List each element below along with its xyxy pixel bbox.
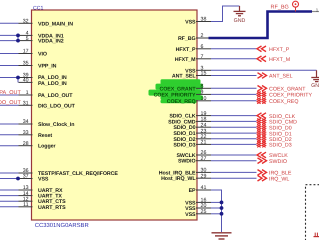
svg-text:33: 33: [23, 130, 29, 136]
net label RF_BG: [271, 4, 289, 10]
svg-text:40: 40: [23, 78, 29, 84]
wire RF_BG thick: [209, 12, 313, 39]
svg-text:Reset: Reset: [38, 133, 52, 139]
pin 1 PA_LDO_OUT: [0, 90, 73, 99]
port HFXT_P: [211, 46, 290, 53]
svg-text:VDD_MAIN_IN: VDD_MAIN_IN: [38, 21, 73, 27]
svg-text:COEX_GRANT: COEX_GRANT: [160, 86, 197, 92]
pin 35 VPP_IN: [0, 61, 57, 70]
svg-text:41: 41: [201, 185, 207, 191]
net label PA_OUT: [0, 90, 21, 96]
port HFXT_M: [211, 56, 290, 63]
svg-text:1: 1: [26, 90, 29, 96]
svg-text:VSS: VSS: [38, 177, 49, 183]
port IRQ_WL: [211, 175, 289, 182]
port SWDIO: [211, 158, 287, 165]
pin 14 UART_TX: [0, 191, 62, 200]
svg-text:COEX_REQ: COEX_REQ: [167, 99, 196, 105]
svg-text:PA_LDO_IN: PA_LDO_IN: [38, 81, 67, 87]
pin 33 Reset: [0, 130, 52, 139]
svg-text:Host_IRQ_WL: Host_IRQ_WL: [161, 176, 196, 182]
svg-text:2: 2: [201, 33, 204, 39]
pin 8 COEX_GRANT: [160, 84, 212, 93]
pin 23 SDIO_D1: [173, 128, 211, 137]
svg-text:8: 8: [201, 84, 204, 90]
port SDIO_D1: [211, 130, 292, 137]
svg-text:RF_BG: RF_BG: [178, 36, 196, 42]
svg-text:Logger: Logger: [38, 144, 55, 150]
svg-text:VIO: VIO: [38, 52, 47, 58]
pin 34 Slow_Clock_In: [0, 119, 74, 128]
ground GND top: [234, 6, 246, 24]
svg-text:ANT_SEL: ANT_SEL: [172, 74, 196, 80]
pin 5 VDDA_IN2: [0, 36, 64, 45]
svg-text:VDDA_IN2: VDDA_IN2: [38, 39, 64, 45]
pin 3 VSS: [185, 66, 211, 75]
ground GND bottom: [212, 233, 232, 239]
pin 32 VDD_MAIN_IN: [0, 19, 73, 28]
pin 29 Host_IRQ_WL: [161, 173, 211, 182]
pin 13 UART_RX: [0, 185, 63, 194]
svg-text:29: 29: [201, 173, 207, 179]
svg-text:35: 35: [23, 61, 29, 67]
no-ERC marker on RF_BG: [293, 1, 299, 11]
node VDDA_IN1 junction: [16, 34, 20, 38]
svg-text:38: 38: [201, 17, 207, 23]
pin 20 VSS: [185, 203, 211, 212]
pin 7 HFXT_M: [175, 54, 211, 63]
pin 19 SDIO_CLK: [169, 111, 211, 120]
wire VDDA tie: [17, 35, 19, 40]
power symbol in dashed box: [314, 233, 320, 237]
port COEX_GRANT: [211, 86, 306, 93]
pin 27 SWDIO: [178, 156, 211, 165]
value label CC3301NG0ARSBR: [35, 222, 89, 229]
pin 10 COEX_REQ: [167, 96, 211, 105]
svg-text:VPP_IN: VPP_IN: [38, 64, 57, 70]
wire PA_LDO tie: [17, 78, 19, 83]
svg-text:HFXT_P: HFXT_P: [176, 47, 196, 53]
pin 25 VSS: [185, 209, 211, 218]
port SDIO_CLK: [211, 113, 296, 120]
port SDIO_D0: [211, 124, 292, 131]
svg-text:10: 10: [201, 96, 207, 102]
svg-text:7: 7: [201, 54, 204, 60]
IC CC1 CC3301NG0ARSBR symbol body: [32, 10, 198, 220]
node VSS37 junction: [16, 177, 20, 181]
svg-text:IRQ_WL: IRQ_WL: [269, 176, 289, 182]
svg-text:VSS: VSS: [185, 212, 196, 218]
wire RF_BG offsheet gray: [312, 11, 319, 13]
port SDIO_D2: [211, 136, 292, 143]
port SDIO_D3: [211, 142, 292, 149]
svg-text:9: 9: [201, 90, 204, 96]
svg-text:34: 34: [23, 119, 29, 125]
pin 37 VSS: [0, 174, 49, 183]
svg-text:5: 5: [26, 36, 29, 42]
wire VSS38 to GND: [211, 6, 240, 22]
svg-text:DIG_LDO_OUT: DIG_LDO_OUT: [38, 103, 76, 109]
sheet boundary dashed box: [306, 185, 320, 240]
pin 41 EP: [189, 185, 211, 194]
pin 15 ANT_SEL: [172, 71, 211, 80]
node PA_LDO_IN junction: [16, 76, 20, 80]
svg-text:COEX_PRIORITY: COEX_PRIORITY: [154, 92, 196, 98]
svg-text:ANT_SEL: ANT_SEL: [269, 74, 293, 80]
svg-text:SWDIO: SWDIO: [269, 159, 287, 165]
svg-text:COEX_GRANT: COEX_GRANT: [269, 87, 306, 93]
port ANT_SEL: [211, 73, 293, 80]
pin 1 offsheet: [316, 7, 319, 12]
svg-text:CC1: CC1: [33, 5, 43, 11]
port IRQ_BLE: [211, 170, 292, 177]
svg-text:EP: EP: [189, 188, 196, 194]
pin 2 RF_BG: [178, 33, 211, 42]
svg-text:TESTP/FAST_CLK_REQ/IFORCE: TESTP/FAST_CLK_REQ/IFORCE: [38, 171, 118, 177]
svg-text:VSS: VSS: [185, 20, 196, 26]
pin 16 VSS: [185, 198, 211, 207]
pin 39 PA_LDO_IN: [0, 73, 67, 81]
node VSS20 junction: [220, 206, 224, 210]
ground GND right: [311, 70, 320, 89]
svg-text:HFXT_P: HFXT_P: [269, 47, 290, 53]
pin 18 SDIO_CMD: [168, 117, 211, 126]
net label DO_OUT: [0, 100, 21, 106]
pin 9 COEX_PRIORITY: [154, 90, 211, 99]
svg-text:37: 37: [23, 174, 29, 180]
svg-text:28: 28: [23, 141, 29, 147]
svg-text:GND: GND: [311, 83, 319, 89]
pin 38 VSS: [185, 17, 211, 26]
svg-text:PA_OUT: PA_OUT: [0, 90, 21, 96]
svg-text:HFXT_M: HFXT_M: [175, 57, 196, 63]
node VSS16 junction: [220, 201, 224, 205]
pin 6 HFXT_P: [176, 44, 211, 53]
pin 40 PA_LDO_IN: [19, 78, 67, 87]
node COEX highlight: [149, 79, 204, 103]
svg-text:6: 6: [201, 44, 204, 50]
port SWCLK: [211, 152, 288, 159]
pin 11 UART_RTS: [0, 202, 66, 211]
pin 21 SDIO_D3: [173, 140, 211, 149]
pin 31 DIG_LDO_OUT: [0, 101, 76, 110]
pin 22 SDIO_D2: [173, 134, 211, 143]
svg-text:GND: GND: [234, 18, 246, 24]
svg-text:17: 17: [23, 49, 29, 55]
pin 26 SWCLK: [176, 150, 211, 159]
svg-text:27: 27: [201, 156, 207, 162]
node VDDA_IN2 junction: [16, 39, 20, 43]
svg-text:11: 11: [23, 202, 29, 208]
svg-text:32: 32: [23, 19, 29, 25]
svg-text:15: 15: [201, 71, 207, 77]
pin 28 Logger: [0, 141, 55, 150]
port COEX_REQ: [211, 98, 298, 105]
svg-text:SWDIO: SWDIO: [178, 159, 196, 165]
svg-text:HFXT_M: HFXT_M: [269, 57, 290, 63]
pin 36 TESTP/FAST_CLK_REQ/IFORCE: [0, 168, 118, 177]
svg-text:SDIO_D3: SDIO_D3: [173, 142, 195, 148]
pin 24 SDIO_D0: [173, 122, 211, 131]
designator CC1: [33, 5, 43, 11]
node VSS25 junction: [220, 212, 224, 216]
svg-text:DO_OUT: DO_OUT: [0, 100, 21, 106]
pin 30 Host_IRQ_BLE: [159, 168, 211, 177]
svg-text:UART_RTS: UART_RTS: [38, 205, 66, 211]
svg-text:RF_BG: RF_BG: [271, 4, 289, 10]
svg-text:PA_LDO_OUT: PA_LDO_OUT: [38, 93, 73, 99]
svg-text:SDIO_D3: SDIO_D3: [269, 143, 292, 149]
wire VSS25: [211, 213, 222, 215]
wire EP down: [211, 190, 222, 232]
pin 12 UART_CTS: [0, 196, 66, 205]
svg-text:31: 31: [23, 101, 29, 107]
svg-text:CC3301NG0ARSBR: CC3301NG0ARSBR: [35, 222, 89, 229]
svg-text:21: 21: [201, 140, 207, 146]
svg-text:COEX_REQ: COEX_REQ: [269, 99, 298, 105]
svg-text:Slow_Clock_In: Slow_Clock_In: [38, 122, 74, 128]
port COEX_PRIORITY: [211, 92, 312, 99]
wire VSS3 to GND: [211, 69, 317, 71]
pin 4 VDDA_IN1: [0, 31, 64, 40]
wire VSS16: [211, 201, 222, 203]
wire VSS20: [211, 207, 222, 209]
pin 17 VIO: [0, 49, 47, 58]
svg-text:COEX_PRIORITY: COEX_PRIORITY: [269, 93, 312, 99]
port SDIO_CMD: [211, 119, 297, 126]
svg-text:25: 25: [201, 209, 207, 215]
